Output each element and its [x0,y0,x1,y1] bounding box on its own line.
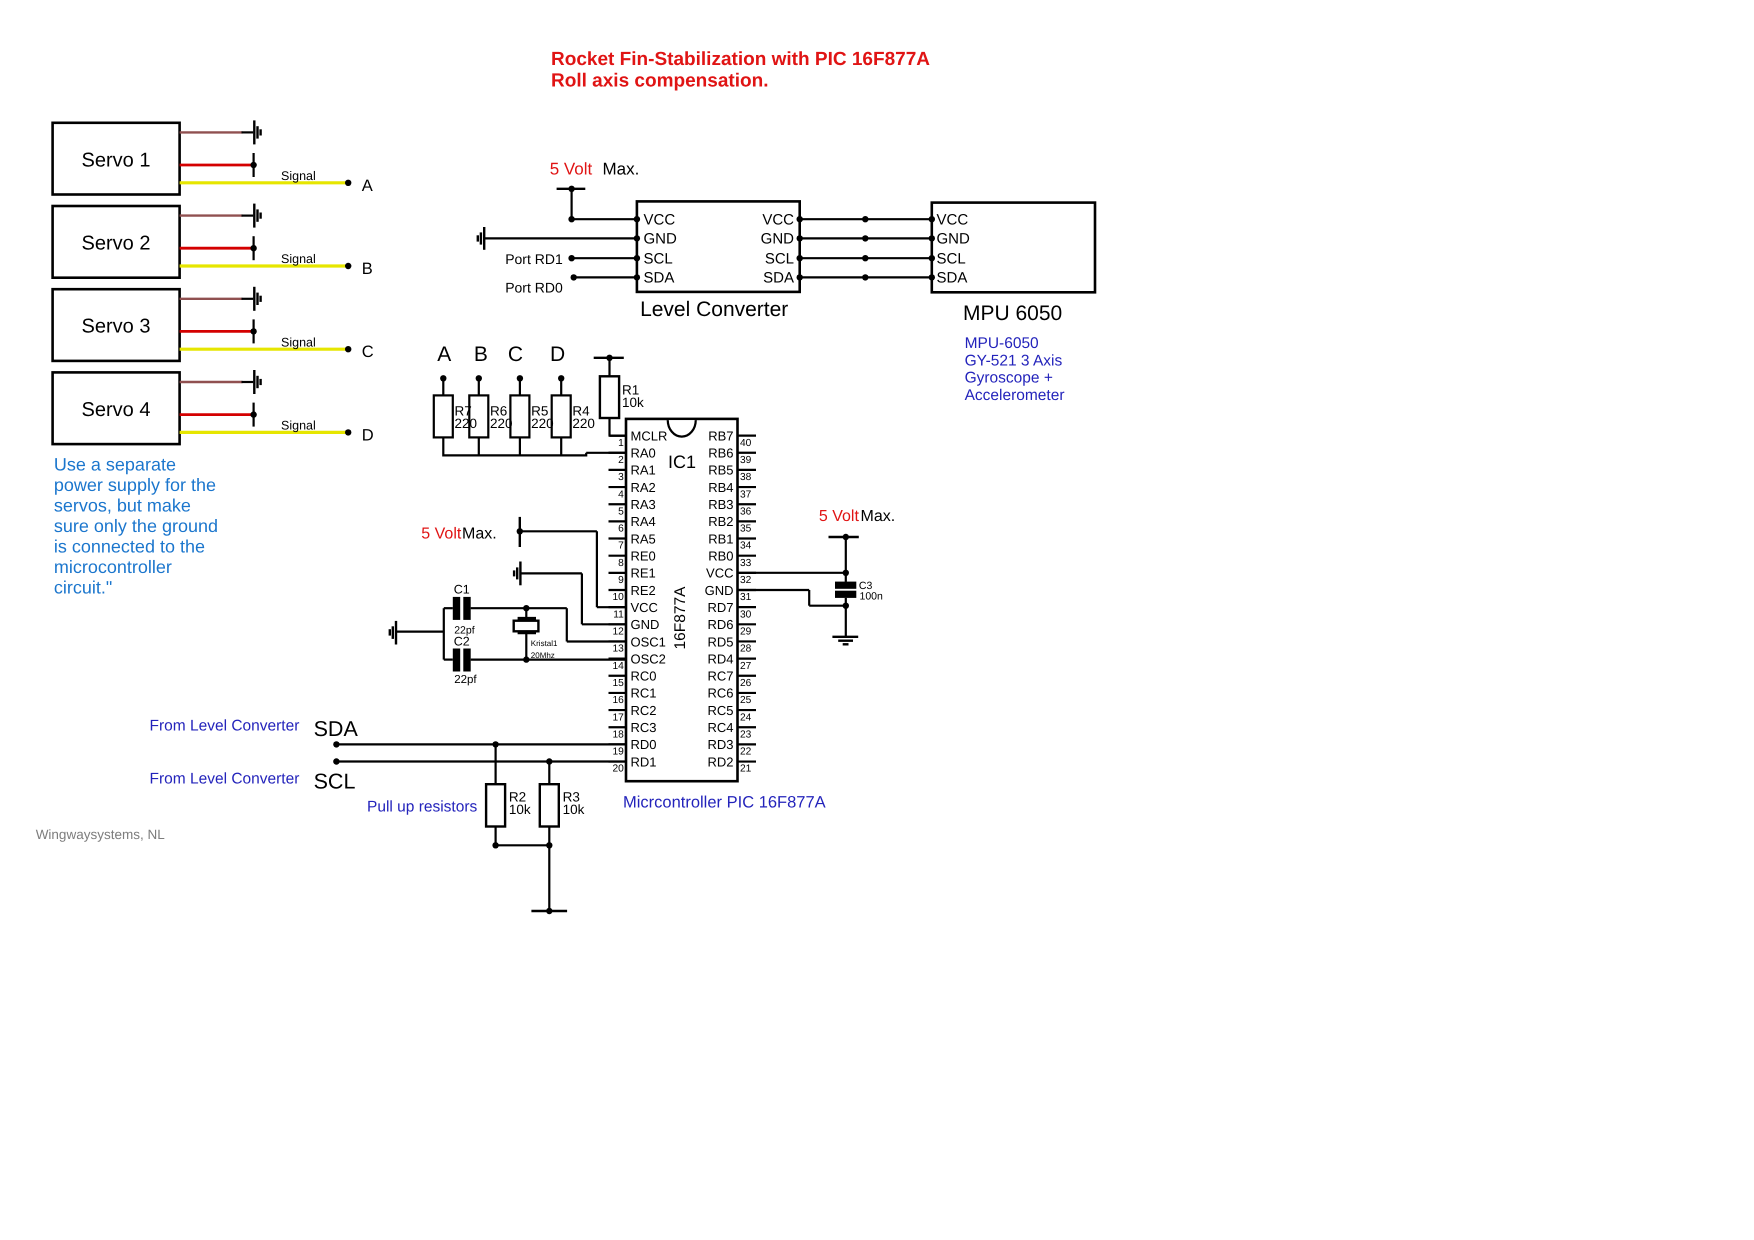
wire SDA to RD0 pin 19 [336,743,626,745]
svg-text:Signal: Signal [281,419,316,433]
svg-text:VCC: VCC [631,600,658,615]
svg-text:Signal: Signal [281,335,316,349]
pin 33 RB0 (right stub) [738,555,757,557]
svg-text:20Mhz: 20Mhz [531,651,555,660]
pin 1 MCLR (left stub) [609,435,627,437]
svg-text:RD5: RD5 [707,634,733,649]
svg-text:5 Volt: 5 Volt [421,526,462,543]
pin 26 RC7 (right stub) [738,675,757,677]
node SCL-R3 junction [546,758,552,764]
svg-text:C: C [508,343,523,366]
svg-text:11: 11 [613,609,624,620]
wire C2 to OSC2 [471,658,627,660]
wire 5V tap to pin 11 VCC [520,530,597,532]
svg-text:RB4: RB4 [708,480,733,495]
svg-text:RC5: RC5 [707,703,733,718]
svg-text:From Level Converter: From Level Converter [150,717,300,734]
svg-text:33: 33 [740,558,752,569]
wire servo 3 power red [180,330,254,333]
svg-text:SDA: SDA [937,270,968,287]
node SDA-R2 junction [492,741,498,747]
svg-text:OSC1: OSC1 [631,634,666,649]
svg-text:servos, but make: servos, but make [54,496,191,516]
wire servo 2 power red [180,247,254,250]
svg-text:6: 6 [618,524,624,535]
servo SV3 box [53,289,180,361]
wire servo 4 signal yellow [180,431,349,434]
svg-text:Port RD0: Port RD0 [505,279,563,295]
svg-text:40: 40 [740,438,752,449]
level converter U2 box [637,201,800,292]
svg-text:23: 23 [740,729,752,740]
svg-text:13: 13 [612,644,624,655]
power tap servo 4 [253,403,255,427]
svg-text:A: A [362,177,373,195]
svg-text:Micrcontroller PIC 16F877A: Micrcontroller PIC 16F877A [623,794,826,812]
wire C3 to ground [845,606,847,637]
pin 39 RB6 (right stub) [738,452,757,454]
supply bar 5V R1 [594,357,624,359]
svg-text:MPU 6050: MPU 6050 [963,302,1062,325]
wire node B to R6 [478,378,480,396]
wire servo 3 ground lead [242,298,254,300]
svg-text:12: 12 [612,627,624,638]
node A [345,180,351,186]
wire servo 4 V+ brown [180,381,243,383]
svg-text:RD3: RD3 [707,737,733,752]
pin 5 RA3 (left stub) [609,503,627,505]
pin 28 RD5 (right stub) [738,640,757,642]
pin 6 RA4 (left stub) [609,520,627,522]
pin 36 RB3 (right stub) [738,503,757,505]
svg-text:B: B [362,260,373,278]
wire R5 to bus [519,437,521,456]
svg-text:RA1: RA1 [631,463,656,478]
svg-text:21: 21 [740,764,752,775]
svg-text:GND: GND [631,617,660,632]
svg-text:microcontroller: microcontroller [54,557,172,577]
node A top [440,375,446,381]
pin 40 RB7 (right stub) [738,435,757,437]
svg-text:Max.: Max. [603,160,640,179]
capacitor C2 [453,649,460,672]
wire resistor bus to RA0 [443,454,586,456]
wire servo 3 V+ brown [180,298,243,300]
IC U1 PIC16F877A box [626,419,738,781]
svg-text:100n: 100n [860,591,884,603]
svg-text:220: 220 [490,416,513,431]
svg-text:D: D [362,426,374,444]
svg-text:Kristal1: Kristal1 [531,639,558,648]
svg-text:32: 32 [740,575,752,586]
svg-text:5: 5 [618,506,624,517]
ground (IC GND pin 12) [519,562,521,586]
node Port RD1 [568,255,574,261]
resistor R4 [552,395,571,437]
servo SV1 box [53,123,180,195]
IC notch [668,420,696,437]
wire 5V bar to VCC pin 32 [845,537,847,573]
ground (level converter GND) [483,227,485,250]
svg-text:IC1: IC1 [668,452,696,472]
wire R6 to bus [478,437,480,456]
svg-text:MCLR: MCLR [631,428,668,443]
wire 5V bar to R1 [608,358,610,377]
pin 15 RC0 (left stub) [609,675,627,677]
servo SV2 box [53,206,180,278]
wire Port RD1 to LC SCL [572,257,637,259]
power tap servo 2 [253,236,255,260]
svg-text:OSC2: OSC2 [631,651,666,666]
svg-text:10k: 10k [509,802,531,817]
wire R4 to bus [560,437,562,456]
svg-text:Signal: Signal [281,169,316,183]
wire servo 4 ground lead [242,381,254,383]
pin 25 RC6 (right stub) [738,692,757,694]
node SCL [333,758,339,764]
svg-text:220: 220 [531,416,554,431]
svg-text:GND: GND [937,231,971,248]
svg-text:RC1: RC1 [631,686,657,701]
wire oscillator ground lead [396,630,444,632]
svg-text:RA5: RA5 [631,531,656,546]
svg-text:RE1: RE1 [631,566,656,581]
ground servo 1 [253,120,255,144]
svg-text:RB6: RB6 [708,446,733,461]
node B top [476,375,482,381]
wire 5V to LC VCC [570,189,572,219]
svg-text:RA0: RA0 [631,446,656,461]
supply bar 5V right [829,536,859,538]
pin 23 RC4 (right stub) [738,726,757,728]
resistor R5 [510,395,529,437]
wire junction to R2 [495,744,497,784]
svg-text:RE2: RE2 [631,583,656,598]
svg-text:RC0: RC0 [631,669,657,684]
resistor R7 [434,395,453,437]
svg-text:14: 14 [612,661,624,672]
svg-text:7: 7 [618,541,624,552]
svg-text:RD1: RD1 [631,754,657,769]
wire R3 to ground rail [548,827,550,912]
servo SV4 box [53,372,180,444]
pin 31 GND (right stub) [738,589,757,591]
node C top [517,375,523,381]
svg-text:Servo 3: Servo 3 [82,316,151,338]
pin 32 VCC (right stub) [738,572,757,574]
svg-text:circuit.": circuit." [54,578,112,598]
pin 10 RE2 (left stub) [609,589,627,591]
pin 38 RB5 (right stub) [738,469,757,471]
svg-text:220: 220 [455,416,478,431]
svg-text:RB7: RB7 [708,428,733,443]
svg-text:38: 38 [740,472,752,483]
svg-text:37: 37 [740,489,752,500]
wire servo 2 signal yellow [180,264,349,267]
wire SCL to RD1 pin 20 [336,760,626,762]
node Port RD0 [571,274,577,280]
resistor R1 [600,376,619,418]
pin 17 RC2 (left stub) [609,709,627,711]
pin 8 RE0 (left stub) [609,555,627,557]
wire Port RD0 to LC SDA [574,276,637,278]
svg-text:SCL: SCL [644,250,673,267]
wire node C to R5 [519,378,521,396]
wire ground to pin 12 GND [520,572,582,574]
svg-text:RC2: RC2 [631,703,657,718]
pin 2 RA0 (left stub) [609,452,627,454]
wire servo 4 power red [180,413,254,416]
svg-text:C1: C1 [454,583,470,597]
svg-text:10k: 10k [622,395,644,410]
pin 21 RD2 (right stub) [738,760,757,762]
svg-text:Pull up resistors: Pull up resistors [367,799,478,816]
node C [345,346,351,352]
pin 24 RC5 (right stub) [738,709,757,711]
wire R7 to bus [442,437,444,456]
wire servo 1 V+ brown [180,131,243,133]
svg-text:24: 24 [740,712,752,723]
svg-text:C: C [362,343,374,361]
svg-text:Use a separate: Use a separate [54,455,176,475]
svg-text:RD4: RD4 [707,651,733,666]
pin 12 GND (left stub) [609,623,627,625]
svg-text:is connected to the: is connected to the [54,537,205,557]
svg-text:Gyroscope +: Gyroscope + [965,370,1053,387]
svg-text:27: 27 [740,661,752,672]
svg-text:RD7: RD7 [707,600,733,615]
pin 7 RA5 (left stub) [609,537,627,539]
svg-text:3: 3 [618,472,624,483]
svg-text:29: 29 [740,627,752,638]
wire servo 3 signal yellow [180,348,349,351]
svg-text:17: 17 [612,712,624,723]
wire R2-R3 bottom link [496,844,550,846]
svg-text:RC6: RC6 [707,686,733,701]
svg-text:22pf: 22pf [454,674,477,686]
ground servo 4 [253,370,255,394]
supply bar 5V level converter [557,188,586,190]
svg-text:VCC: VCC [762,211,794,228]
resistor R3 [540,784,559,826]
svg-text:SDA: SDA [644,270,675,287]
power tap IC VCC [519,517,521,547]
svg-text:Max.: Max. [861,508,896,525]
wire servo 2 V+ brown [180,214,243,216]
svg-text:Level Converter: Level Converter [640,298,788,321]
svg-text:2: 2 [618,455,624,466]
svg-text:RA4: RA4 [631,514,656,529]
node SDA [333,741,339,747]
svg-text:Roll axis compensation.: Roll axis compensation. [551,71,769,92]
svg-text:RC4: RC4 [707,720,733,735]
wire GND pin 31 to C3 [738,589,810,591]
pin 9 RE1 (left stub) [609,572,627,574]
wire servo 1 power red [180,164,254,167]
svg-text:RB3: RB3 [708,497,733,512]
pin 4 RA2 (left stub) [609,486,627,488]
pin 35 RB2 (right stub) [738,520,757,522]
svg-text:RB2: RB2 [708,514,733,529]
node crystal top [523,605,529,611]
svg-text:GND: GND [644,231,678,248]
wire LC SDA to MPU SDA [800,276,932,278]
node crystal bottom [523,656,529,662]
svg-text:34: 34 [740,541,752,552]
svg-text:10k: 10k [563,802,585,817]
svg-text:Wingwaysystems, NL: Wingwaysystems, NL [36,827,166,842]
svg-text:31: 31 [740,592,752,603]
pin 30 RD7 (right stub) [738,606,757,608]
svg-text:VCC: VCC [937,211,969,228]
svg-text:220: 220 [572,416,595,431]
pin 18 RC3 (left stub) [609,726,627,728]
svg-text:RC3: RC3 [631,720,657,735]
svg-text:Accelerometer: Accelerometer [965,387,1065,404]
svg-text:Max.: Max. [462,526,497,543]
svg-text:VCC: VCC [706,566,733,581]
wire node D to R4 [560,378,562,396]
power tap servo 3 [253,319,255,343]
svg-text:39: 39 [740,455,752,466]
wire C1 to OSC1 [471,607,567,609]
pin 27 RD4 (right stub) [738,658,757,660]
svg-text:SDA: SDA [763,270,794,287]
svg-text:RB0: RB0 [708,548,733,563]
pin 3 RA1 (left stub) [609,469,627,471]
ground servo 3 [253,287,255,311]
svg-text:RE0: RE0 [631,548,656,563]
wire C1-C2 left link [443,608,445,659]
svg-text:Servo 2: Servo 2 [82,233,151,255]
power tap servo 1 [253,153,255,177]
wire VCC pin 32 to C3 [738,572,846,574]
svg-text:5 Volt: 5 Volt [819,508,860,525]
svg-text:Port RD1: Port RD1 [505,251,563,267]
svg-text:36: 36 [740,506,752,517]
svg-text:5 Volt: 5 Volt [550,160,593,179]
svg-text:1: 1 [618,438,624,449]
wire node A to R7 [442,378,444,396]
svg-text:SCL: SCL [937,250,966,267]
MPU 6050 box [932,203,1095,293]
svg-text:RD6: RD6 [707,617,733,632]
pin 29 RD6 (right stub) [738,623,757,625]
svg-text:D: D [550,343,565,366]
ground (C3) [832,636,858,638]
pin 13 OSC1 (left stub) [609,640,627,642]
wire LC GND to MPU GND [800,237,932,239]
svg-text:15: 15 [612,678,624,689]
wire servo 1 signal yellow [180,181,349,184]
wire servo 2 ground lead [242,215,254,217]
svg-text:VCC: VCC [644,211,676,228]
svg-text:SCL: SCL [765,250,794,267]
resistor R2 [486,784,505,826]
wire LC VCC to MPU VCC [800,218,932,220]
pin 34 RB1 (right stub) [738,537,757,539]
svg-text:GND: GND [705,583,734,598]
svg-text:8: 8 [618,558,624,569]
svg-text:28: 28 [740,644,752,655]
svg-text:22: 22 [740,747,752,758]
svg-text:C2: C2 [454,635,470,649]
pin 19 RD0 (left stub) [609,743,627,745]
pin 37 RB4 (right stub) [738,486,757,488]
pin 14 OSC2 (left stub) [609,658,627,660]
svg-text:Servo 4: Servo 4 [82,399,151,421]
svg-text:Servo 1: Servo 1 [82,149,151,171]
svg-text:A: A [437,343,451,366]
wire R1 to MCLR [608,418,610,436]
svg-text:RD2: RD2 [707,754,733,769]
svg-text:power supply for the: power supply for the [54,475,216,495]
ground (oscillator) [395,621,397,645]
crystal Kristal1 [525,608,527,618]
wire R2 bottom [495,827,497,846]
wire LC SCL to MPU SCL [800,257,932,259]
svg-text:16: 16 [612,695,624,706]
wire ground to LC GND [484,237,637,239]
svg-text:SDA: SDA [314,717,359,741]
svg-text:19: 19 [612,747,624,758]
svg-text:Signal: Signal [281,252,316,266]
svg-text:25: 25 [740,695,752,706]
svg-text:30: 30 [740,609,752,620]
resistor R6 [469,395,488,437]
pin 16 RC1 (left stub) [609,692,627,694]
ground servo 2 [253,204,255,228]
svg-text:sure only the ground: sure only the ground [54,516,218,536]
pin 22 RD3 (right stub) [738,743,757,745]
wire junction to R3 [548,762,550,785]
node D [345,429,351,435]
svg-text:RB1: RB1 [708,531,733,546]
ground rail (pull-ups) [531,910,567,912]
svg-text:10: 10 [612,592,624,603]
capacitor C1 [453,597,460,620]
svg-text:B: B [474,343,488,366]
pin 20 RD1 (left stub) [609,760,627,762]
capacitor C3 [845,573,847,582]
node D top [558,375,564,381]
svg-text:4: 4 [618,489,624,500]
pin 11 VCC (left stub) [609,606,627,608]
node B [345,263,351,269]
svg-text:MPU-6050: MPU-6050 [965,335,1039,352]
svg-text:18: 18 [612,729,624,740]
svg-text:RD0: RD0 [631,737,657,752]
svg-text:GND: GND [761,231,795,248]
svg-text:RA2: RA2 [631,480,656,495]
svg-text:SCL: SCL [314,770,356,794]
svg-text:26: 26 [740,678,752,689]
svg-text:20: 20 [612,764,624,775]
wire servo 1 ground lead [242,131,254,133]
svg-text:35: 35 [740,524,752,535]
svg-text:Rocket Fin-Stabilization with: Rocket Fin-Stabilization with PIC 16F877… [551,49,930,70]
svg-text:RA3: RA3 [631,497,656,512]
svg-text:From Level Converter: From Level Converter [150,771,300,788]
svg-text:16F877A: 16F877A [672,586,689,650]
svg-text:GY-521 3 Axis: GY-521 3 Axis [965,352,1063,369]
svg-text:RB5: RB5 [708,463,733,478]
svg-text:RC7: RC7 [707,669,733,684]
svg-text:9: 9 [618,575,624,586]
